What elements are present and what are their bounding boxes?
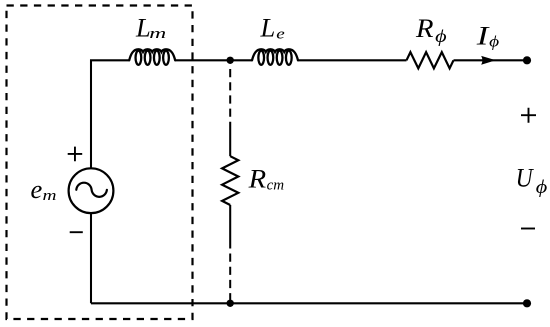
- svg-text:e: e: [31, 174, 43, 204]
- inductor L2 Le: [252, 49, 298, 60]
- inductor L1 Lm: [129, 49, 175, 60]
- bottom rail wire: [91, 302, 527, 304]
- current arrow Iphi: [481, 56, 496, 65]
- svg-text:m: m: [43, 188, 57, 204]
- minus sign at source: [70, 231, 83, 233]
- svg-text:R: R: [415, 13, 434, 43]
- svg-text:L: L: [260, 13, 276, 43]
- wire left branch top: source to Lm: [91, 60, 129, 168]
- dashed wire from node A down: [229, 69, 231, 122]
- svg-text:m: m: [149, 26, 166, 42]
- svg-text:e: e: [276, 27, 285, 43]
- dashed boundary box (motor model outline): [7, 6, 193, 320]
- node B junction dot bottom: [227, 300, 234, 307]
- terminal dot bottom right: [523, 299, 531, 307]
- wire lead Rcm down: [229, 205, 231, 249]
- plus sign at output: [521, 108, 536, 123]
- wire source bottom to bottom rail: [90, 213, 92, 303]
- resistor R2 Rcm: [222, 156, 238, 205]
- svg-text:ϕ: ϕ: [536, 178, 548, 198]
- wire Lm to node A: [175, 59, 252, 61]
- wire Le to Rphi: [298, 59, 407, 61]
- resistor R1 Rphi: [407, 52, 454, 68]
- plus sign at source: [68, 147, 83, 162]
- wire lead to Rcm: [229, 122, 231, 156]
- svg-text:cm: cm: [267, 178, 285, 194]
- node A junction dot: [227, 57, 234, 64]
- svg-text:ϕ: ϕ: [489, 33, 499, 51]
- svg-text:ϕ: ϕ: [435, 26, 447, 46]
- terminal dot top right: [523, 56, 531, 64]
- svg-text:R: R: [248, 164, 267, 194]
- svg-text:U: U: [516, 163, 535, 193]
- voltage source em circle: [69, 168, 114, 213]
- dashed wire down to node B: [229, 254, 231, 301]
- wire Rphi to terminal: [454, 59, 528, 61]
- svg-text:I: I: [475, 21, 489, 51]
- minus sign at output: [521, 228, 535, 230]
- sine symbol inside source: [76, 183, 107, 197]
